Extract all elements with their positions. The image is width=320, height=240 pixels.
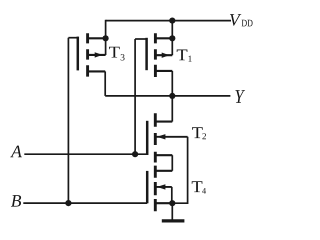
node T3 drain / VDD xyxy=(103,35,109,41)
T2 body stub xyxy=(155,136,187,138)
T3 body stub xyxy=(88,54,106,56)
label T1 xyxy=(177,50,192,62)
label T4 xyxy=(192,181,206,193)
wire Y line xyxy=(105,95,230,97)
T4 body stub xyxy=(155,186,172,188)
T1 gate wire xyxy=(135,38,147,40)
T4 gate bar xyxy=(146,171,149,203)
ground xyxy=(162,203,185,221)
node A / T1 gate xyxy=(132,151,138,157)
T2 channel xyxy=(154,113,157,162)
T2 gate bar xyxy=(146,121,149,155)
wire input A line xyxy=(24,153,147,155)
T3 source stub xyxy=(88,70,106,72)
node Y junction xyxy=(169,93,175,99)
T1 drain stub xyxy=(155,37,172,39)
transistor T3 xyxy=(68,33,105,76)
wire T3 gate down to B xyxy=(67,38,69,203)
T2 body arrow xyxy=(157,134,166,139)
node T1 drain xyxy=(169,35,175,41)
label T3 xyxy=(109,47,125,61)
label V_DD DD subscript xyxy=(242,20,253,27)
label Y xyxy=(235,90,245,103)
transistor T2 xyxy=(147,113,187,162)
T1 body stub xyxy=(155,54,172,56)
wire T1 gate down to A xyxy=(134,39,136,154)
wire input B line xyxy=(23,202,147,204)
wire T1 drain to VDD xyxy=(171,21,173,56)
T4 channel xyxy=(154,166,157,212)
T1 body arrow xyxy=(162,53,170,58)
label B xyxy=(11,195,21,207)
transistor T4 xyxy=(147,166,172,212)
T3 gate wire xyxy=(68,37,77,39)
node VDD rail / T1 xyxy=(169,18,175,24)
node ground junction xyxy=(169,200,175,206)
T4 body wire down xyxy=(171,187,173,203)
T4 source stub xyxy=(155,202,172,204)
T2 source stub xyxy=(155,154,172,156)
T4 drain stub xyxy=(155,170,172,172)
T4 body arrow xyxy=(157,184,166,189)
T3 drain stub xyxy=(88,37,106,39)
label T2 xyxy=(192,127,206,139)
transistor T1 xyxy=(135,33,172,77)
T1 channel xyxy=(154,33,157,77)
wire T1 source down through Y to T2 drain xyxy=(171,71,173,122)
T2 drain stub xyxy=(155,121,172,123)
T3 gate bar xyxy=(77,37,80,71)
T3 body arrow xyxy=(95,52,103,57)
wire T2 body to ground node xyxy=(172,137,187,203)
T3 channel xyxy=(86,33,89,76)
T1 gate bar xyxy=(145,38,148,70)
label V_DD V xyxy=(230,14,241,26)
label A xyxy=(10,146,22,158)
wire T2 source to T4 drain xyxy=(171,155,173,171)
wire T3 source down to Y xyxy=(104,71,106,96)
T1 source stub xyxy=(155,70,172,72)
node B / T3 gate xyxy=(65,200,71,206)
wire VDD rail left drop to T3 xyxy=(105,20,107,55)
VDD rail xyxy=(106,20,231,22)
